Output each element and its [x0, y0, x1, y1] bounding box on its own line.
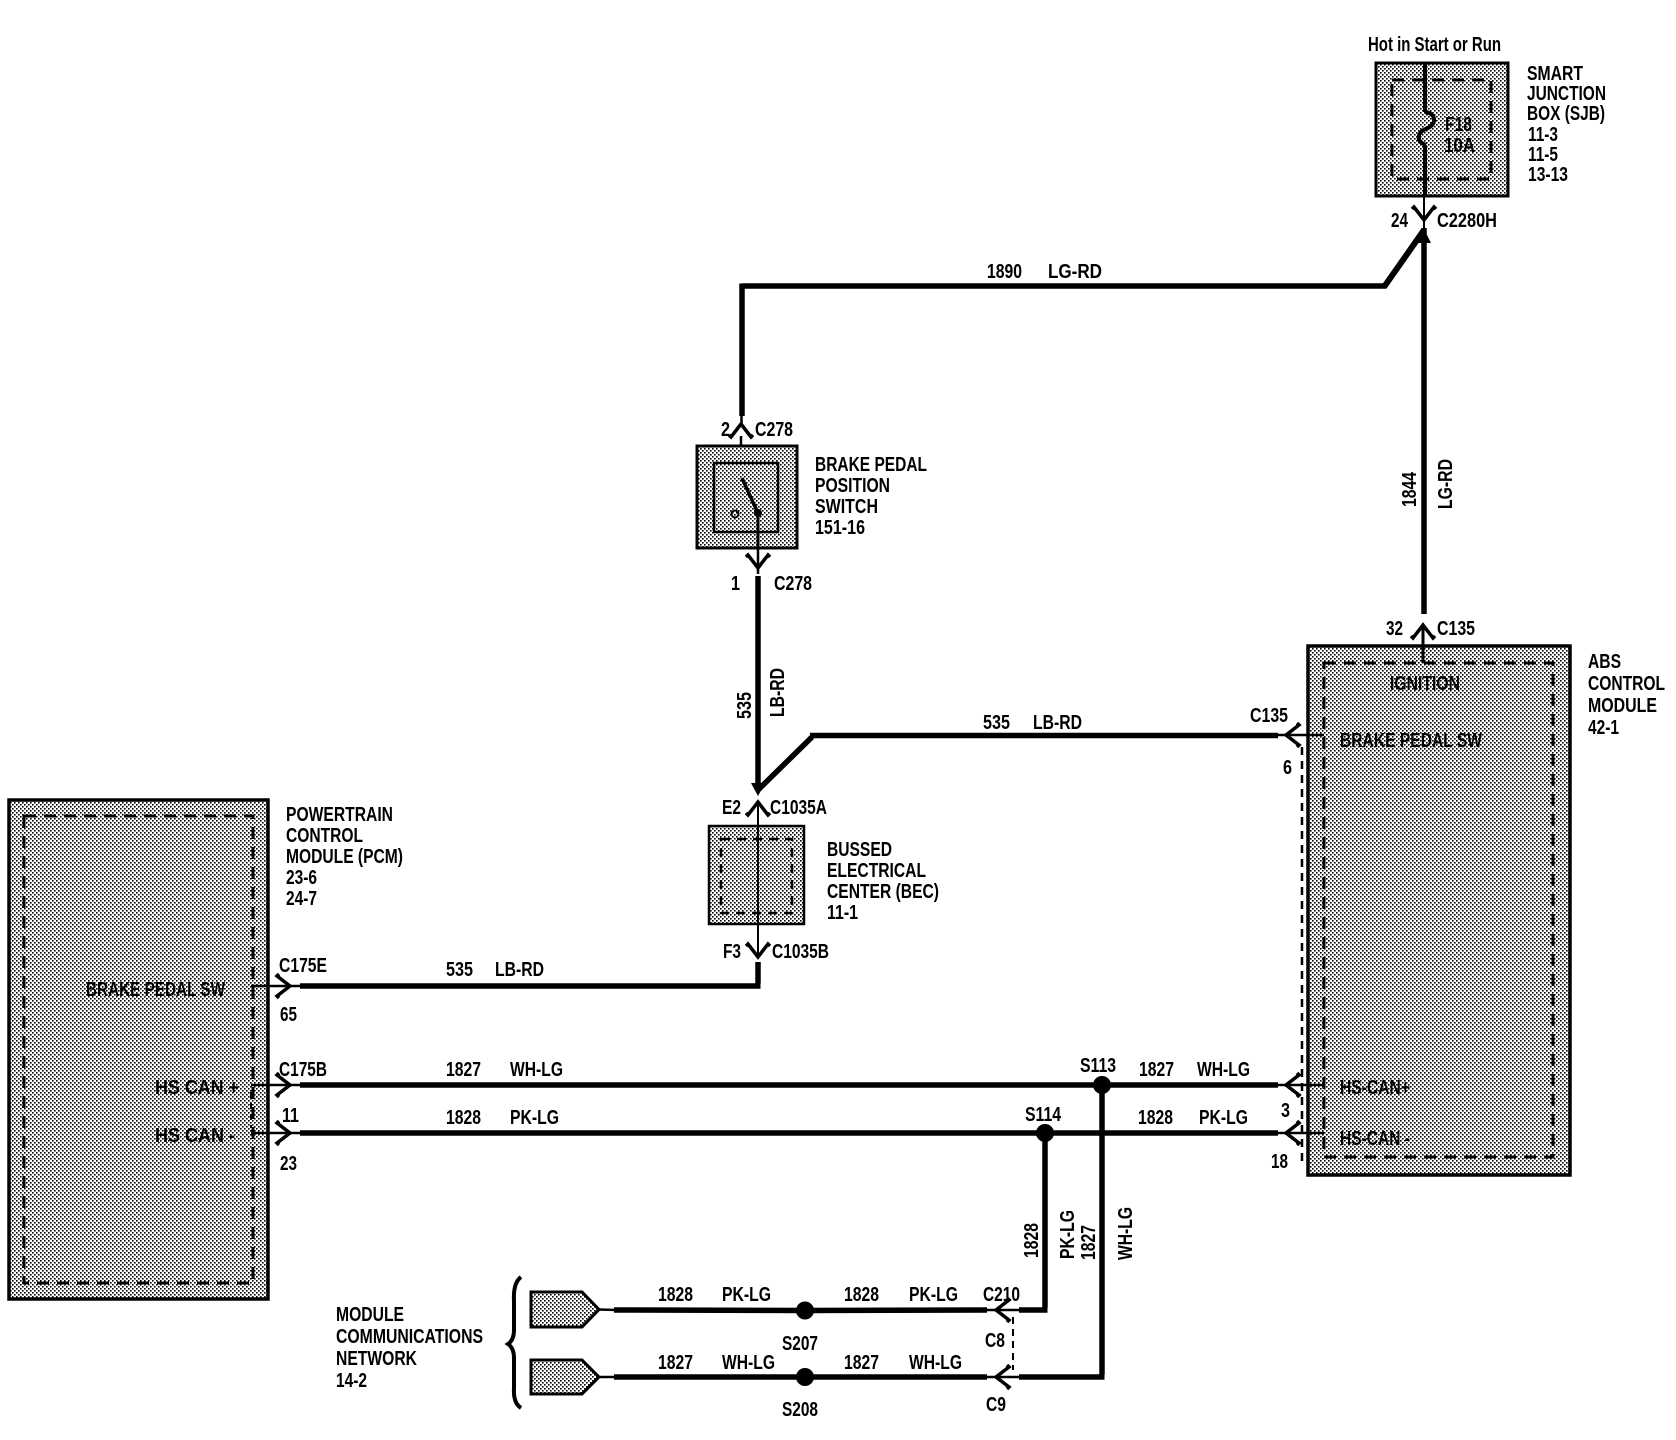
svg-text:S114: S114 [1025, 1104, 1062, 1126]
svg-text:PK-LG: PK-LG [510, 1107, 559, 1129]
label MODULE COMMUNICATIONS NETWORK 14-2 [336, 1304, 483, 1392]
connector C135 pin 6 [1250, 705, 1324, 779]
svg-text:C1035A: C1035A [770, 797, 827, 819]
svg-text:LB-RD: LB-RD [1033, 712, 1082, 734]
svg-text:HS-CAN+: HS-CAN+ [1340, 1077, 1410, 1099]
svg-text:NETWORK: NETWORK [336, 1348, 417, 1370]
svg-text:HS-CAN -: HS-CAN - [1340, 1128, 1410, 1150]
fuse F18 10A [1419, 63, 1475, 196]
svg-text:C2280H: C2280H [1437, 210, 1497, 232]
svg-text:LB-RD: LB-RD [767, 668, 789, 717]
svg-text:IGNITION: IGNITION [1390, 673, 1460, 695]
svg-text:JUNCTION: JUNCTION [1527, 83, 1606, 105]
svg-text:14-2: 14-2 [336, 1370, 367, 1392]
connector C8 dashed link [985, 1317, 1013, 1370]
label POWERTRAIN CONTROL MODULE (PCM) 23-6 24-7 [286, 804, 403, 910]
wire 1844 LG-RD from C2280H to ABS [1399, 228, 1457, 614]
svg-text:C135: C135 [1437, 618, 1475, 640]
connector C175E pin 65 [251, 955, 327, 1026]
svg-text:11-5: 11-5 [1528, 144, 1558, 166]
svg-text:ABS: ABS [1588, 651, 1621, 673]
svg-text:BOX (SJB): BOX (SJB) [1527, 103, 1605, 125]
wire 1828 PK-LG S114 down to C210 [1019, 1133, 1079, 1310]
wire 1827 WH-LG PCM to S113 [300, 1059, 1102, 1085]
wire 1827 WH-LG S208 to C9 [805, 1352, 987, 1377]
network connector flag 2 [531, 1360, 616, 1394]
svg-text:1828: 1828 [658, 1284, 693, 1306]
svg-text:S207: S207 [782, 1333, 818, 1355]
svg-text:1828: 1828 [844, 1284, 879, 1306]
svg-text:24-7: 24-7 [286, 888, 317, 910]
svg-text:WH-LG: WH-LG [1197, 1059, 1250, 1081]
svg-text:2: 2 [721, 419, 730, 441]
svg-text:C278: C278 [774, 573, 812, 595]
connector C135 pin 3 [1278, 1073, 1324, 1122]
brace for module communications network [508, 1277, 521, 1408]
connector C175B pin 11 [251, 1059, 327, 1127]
svg-text:1890: 1890 [987, 261, 1022, 283]
connector C1035B pin F3 [723, 941, 829, 963]
wire 1827 WH-LG S113 to ABS pin 3 [1102, 1059, 1278, 1085]
brake pedal position switch [697, 446, 797, 548]
ABS control module [1308, 646, 1570, 1175]
connector C278 pin 2 [721, 419, 793, 478]
connector C278 pin 1 [731, 548, 812, 595]
svg-text:1: 1 [731, 573, 740, 595]
svg-text:F3: F3 [723, 941, 741, 963]
svg-text:HS CAN -: HS CAN - [155, 1125, 235, 1147]
svg-text:E2: E2 [722, 797, 741, 819]
svg-text:C9: C9 [986, 1394, 1006, 1416]
wire 535 LB-RD switch to BEC [734, 576, 789, 796]
svg-text:11-3: 11-3 [1528, 124, 1558, 146]
svg-text:ELECTRICAL: ELECTRICAL [827, 860, 926, 882]
connector C175B pin 23 [251, 1121, 300, 1175]
svg-text:C278: C278 [755, 419, 793, 441]
wire 1828 PK-LG S114 to ABS pin 18 [1045, 1107, 1278, 1133]
svg-text:1828: 1828 [446, 1107, 481, 1129]
splice S207 [782, 1302, 818, 1356]
svg-text:BRAKE PEDAL SW: BRAKE PEDAL SW [86, 979, 225, 1001]
svg-text:PK-LG: PK-LG [722, 1284, 771, 1306]
svg-text:WH-LG: WH-LG [510, 1059, 563, 1081]
bussed electrical center BEC [709, 826, 804, 958]
svg-text:32: 32 [1386, 618, 1403, 640]
label BRAKE PEDAL POSITION SWITCH 151-16 [815, 454, 927, 539]
svg-text:PK-LG: PK-LG [1199, 1107, 1248, 1129]
svg-text:C135: C135 [1250, 705, 1288, 727]
svg-text:WH-LG: WH-LG [722, 1352, 775, 1374]
svg-text:POWERTRAIN: POWERTRAIN [286, 804, 393, 826]
svg-text:SWITCH: SWITCH [815, 496, 878, 518]
svg-text:CENTER (BEC): CENTER (BEC) [827, 881, 939, 903]
connector C135 pin 32 [1386, 618, 1475, 663]
svg-text:1827: 1827 [1078, 1225, 1100, 1260]
svg-text:1827: 1827 [446, 1059, 481, 1081]
svg-text:WH-LG: WH-LG [909, 1352, 962, 1374]
svg-text:1844: 1844 [1399, 471, 1421, 507]
svg-text:535: 535 [446, 959, 473, 981]
svg-text:Hot in Start or Run: Hot in Start or Run [1368, 34, 1501, 56]
svg-text:23-6: 23-6 [286, 867, 317, 889]
svg-text:1827: 1827 [844, 1352, 879, 1374]
svg-text:S208: S208 [782, 1399, 818, 1421]
svg-text:11: 11 [282, 1105, 299, 1127]
svg-text:C175B: C175B [279, 1059, 327, 1081]
label ABS CONTROL MODULE 42-1 [1588, 651, 1665, 739]
svg-text:LG-RD: LG-RD [1048, 261, 1102, 283]
network connector flag 1 [531, 1292, 616, 1327]
wire 1890 LG-RD from C2280H to brake pedal position switch [742, 229, 1432, 424]
connector C175B dashed link [250, 1092, 252, 1128]
svg-text:11-1: 11-1 [827, 902, 858, 924]
svg-text:151-16: 151-16 [815, 517, 865, 539]
svg-text:65: 65 [280, 1004, 297, 1026]
svg-text:3: 3 [1281, 1100, 1290, 1122]
svg-text:POSITION: POSITION [815, 475, 890, 497]
svg-text:CONTROL: CONTROL [286, 825, 363, 847]
svg-text:BRAKE PEDAL: BRAKE PEDAL [815, 454, 927, 476]
svg-text:SMART: SMART [1527, 63, 1583, 85]
svg-text:18: 18 [1271, 1151, 1288, 1173]
connector C1035A pin E2 [722, 797, 827, 826]
connector C210 [983, 1284, 1020, 1322]
svg-text:HS CAN +: HS CAN + [155, 1077, 239, 1099]
svg-text:LB-RD: LB-RD [495, 959, 544, 981]
svg-text:LG-RD: LG-RD [1435, 459, 1457, 509]
svg-text:6: 6 [1283, 757, 1292, 779]
label SMART JUNCTION BOX (SJB) 11-3 11-5 13-13 [1527, 63, 1606, 186]
wire 1828 PK-LG S207 to C210 [805, 1284, 987, 1311]
svg-text:535: 535 [734, 692, 756, 719]
svg-text:23: 23 [280, 1153, 297, 1175]
wire 1828 PK-LG network to S207 [614, 1284, 805, 1311]
svg-text:WH-LG: WH-LG [1115, 1207, 1137, 1260]
label BUSSED ELECTRICAL CENTER (BEC) 11-1 [827, 839, 939, 924]
wire 1828 PK-LG PCM to S114 [300, 1107, 1045, 1133]
svg-text:PK-LG: PK-LG [909, 1284, 958, 1306]
connector C9 [985, 1365, 1020, 1416]
svg-text:1828: 1828 [1021, 1223, 1043, 1258]
svg-text:13-13: 13-13 [1528, 164, 1568, 186]
svg-text:1827: 1827 [1139, 1059, 1174, 1081]
svg-text:C175E: C175E [279, 955, 327, 977]
splice S114 [1025, 1104, 1062, 1142]
svg-text:1827: 1827 [658, 1352, 693, 1374]
svg-text:C1035B: C1035B [772, 941, 829, 963]
smart junction box SJB [1376, 63, 1508, 196]
svg-text:CONTROL: CONTROL [1588, 673, 1665, 695]
svg-text:1828: 1828 [1138, 1107, 1173, 1129]
connector C135 dashed link [1301, 747, 1304, 1162]
svg-text:F18: F18 [1445, 114, 1472, 136]
connector C2280H pin 24 [1391, 196, 1497, 232]
splice S208 [782, 1368, 818, 1421]
svg-text:COMMUNICATIONS: COMMUNICATIONS [336, 1326, 483, 1348]
svg-text:BUSSED: BUSSED [827, 839, 892, 861]
svg-text:535: 535 [983, 712, 1010, 734]
connector C135 pin 18 [1271, 1121, 1324, 1173]
svg-text:PK-LG: PK-LG [1057, 1210, 1079, 1259]
wire 535 LB-RD branch to ABS pin 6 [758, 712, 1278, 790]
svg-text:C210: C210 [983, 1284, 1020, 1306]
wire 1827 WH-LG S113 down to C9 [1019, 1085, 1137, 1377]
splice S113 [1080, 1055, 1116, 1094]
svg-text:MODULE: MODULE [336, 1304, 404, 1326]
svg-text:10A: 10A [1444, 135, 1475, 157]
svg-text:S113: S113 [1080, 1055, 1116, 1077]
svg-text:42-1: 42-1 [1588, 717, 1619, 739]
svg-text:MODULE (PCM): MODULE (PCM) [286, 846, 403, 868]
svg-text:MODULE: MODULE [1588, 695, 1657, 717]
svg-text:24: 24 [1391, 210, 1409, 232]
powertrain control module PCM [9, 800, 268, 1299]
wire 1827 WH-LG network to S208 [614, 1352, 805, 1377]
wire 535 LB-RD BEC to PCM pin 65 [300, 959, 761, 986]
svg-text:C8: C8 [985, 1330, 1005, 1352]
svg-text:BRAKE PEDAL SW: BRAKE PEDAL SW [1340, 730, 1482, 752]
